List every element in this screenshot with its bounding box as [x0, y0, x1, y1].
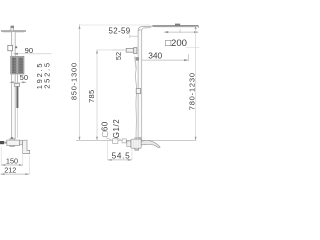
54.5 dim line [108, 159, 132, 161]
hose front [135, 69, 136, 140]
head top connector front [175, 24, 180, 26]
pipe left view [12, 32, 16, 139]
hand shower head front [136, 57, 139, 60]
svg-text:52: 52 [114, 52, 123, 60]
left mixer handle [0, 141, 4, 144]
svg-text:850-1300: 850-1300 [70, 62, 79, 100]
pipe front view [138, 30, 142, 140]
left mixer spout [23, 140, 30, 153]
wall baseline [76, 139, 196, 141]
50 dim line [10, 81, 27, 83]
svg-text:252.5: 252.5 [42, 61, 51, 89]
svg-text:54.5: 54.5 [112, 151, 131, 160]
head right end tick [197, 26, 199, 28]
head connector [11, 26, 14, 31]
hand shower handle front [135, 57, 136, 70]
212 dim [28, 155, 30, 174]
785 dim line [96, 50, 98, 140]
shower arm front: elbow inner line [142, 28, 151, 31]
hand shower side view [11, 56, 24, 74]
front mixer handle [141, 140, 160, 147]
left mixer body [7, 140, 20, 145]
svg-text:□200: □200 [165, 38, 187, 49]
wall inlet square left [113, 139, 118, 144]
52 reference line [112, 49, 126, 51]
svg-text:785: 785 [87, 89, 96, 102]
left mixer: pipe end nub [11, 137, 13, 139]
hose left view upper [17, 74, 19, 84]
pipe collar front [136, 89, 140, 94]
svg-text:50: 50 [20, 73, 28, 82]
square60 leader [106, 138, 112, 140]
785 top reference line [97, 49, 126, 51]
shower head front view [153, 25, 199, 27]
52-59 dim marks [130, 34, 138, 38]
hose lower faint [16, 108, 18, 138]
left mixer connector right [20, 141, 23, 145]
shower arm front: elbow outer line [138, 26, 152, 30]
850-1300 dim line [79, 24, 81, 140]
svg-text:780-1230: 780-1230 [188, 72, 197, 110]
svg-text:G1/2: G1/2 [112, 119, 121, 139]
top reference line [80, 24, 151, 26]
front mixer body [138, 137, 141, 139]
front mixer escutcheon left [122, 139, 126, 143]
hose dark section [16, 87, 18, 109]
shower head side view [1, 30, 26, 32]
150 dim [1, 147, 23, 166]
svg-text:340: 340 [148, 51, 162, 61]
90 dim line [14, 53, 52, 55]
square200 dim line [164, 31, 198, 33]
svg-text:150: 150 [6, 157, 18, 166]
hose connector left view [15, 83, 20, 86]
hand shower holder front [134, 48, 137, 54]
head lower reference line [186, 47, 200, 49]
hand shower bracket arm front [126, 48, 134, 52]
front mixer spout bottom [135, 148, 139, 150]
svg-text:□60: □60 [101, 121, 110, 136]
54.5 ext lines [108, 141, 132, 160]
780-1230 dim line [195, 26, 197, 141]
slider square [8, 45, 13, 50]
left mixer flange [10, 139, 15, 147]
svg-text:212: 212 [4, 166, 16, 175]
340 dim line [142, 59, 189, 61]
G1/2 leader [118, 138, 122, 140]
svg-text:52-59: 52-59 [109, 26, 131, 35]
